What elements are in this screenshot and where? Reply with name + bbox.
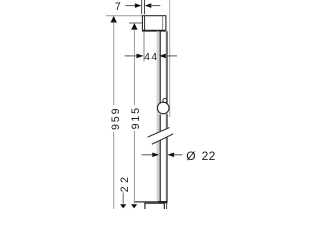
rail left edge mid segment xyxy=(159,115,161,132)
extension line 7 left xyxy=(141,0,143,14)
bracket plate inner line xyxy=(144,16,146,31)
rail right edge lower segment xyxy=(166,137,168,202)
extension line 7 right xyxy=(144,0,146,14)
rail left edge lower segment xyxy=(159,140,161,201)
arrow 959 top xyxy=(111,16,117,23)
bracket bottom edge thick xyxy=(142,30,166,32)
rail right inner shading lower xyxy=(165,137,166,201)
dim line 22 bottom xyxy=(122,193,124,204)
break symbol lower line xyxy=(152,134,173,144)
arrow 22 bottom xyxy=(120,204,126,208)
svg-text:959: 959 xyxy=(110,107,122,130)
svg-text:44: 44 xyxy=(144,52,158,63)
extension line 44 left xyxy=(143,32,145,62)
rail left shading lower xyxy=(157,142,160,202)
extension line top of assembly xyxy=(106,15,143,17)
break symbol upper line xyxy=(148,128,170,138)
extension line top of bar xyxy=(129,22,142,24)
rail left shading upper xyxy=(157,31,160,132)
arrow 915 bottom xyxy=(131,204,137,208)
dim line diameter 22 left segment with arrow xyxy=(142,154,153,156)
svg-text:915: 915 xyxy=(130,106,142,129)
wall bracket top body xyxy=(142,16,166,31)
dim line 959 lower segment xyxy=(113,132,115,209)
dim line 7 left segment with arrow xyxy=(126,5,137,7)
bar bottom end cap thick xyxy=(158,201,167,203)
rail left edge upper segment xyxy=(159,31,161,103)
svg-text:22: 22 xyxy=(202,149,216,163)
dim line 915 lower segment xyxy=(133,131,135,204)
dim line diameter 22 right segment with arrow xyxy=(167,153,174,158)
slider hook xyxy=(163,99,167,103)
wall bracket bottom body xyxy=(145,203,164,211)
slider knob circle xyxy=(157,102,169,114)
svg-text:Ø: Ø xyxy=(186,149,195,163)
rail right edge mid segment xyxy=(166,114,168,129)
dim line 7 right segment with arrow xyxy=(145,3,152,8)
svg-text:7: 7 xyxy=(115,1,121,13)
dim line 915 upper segment xyxy=(133,30,135,106)
rail right inner shading upper xyxy=(165,31,166,129)
bracket inner right line xyxy=(162,16,164,31)
dim line 44 right segment with arrow xyxy=(159,54,166,59)
rail right edge upper segment xyxy=(166,31,168,104)
dim line 44 left segment with arrow xyxy=(125,55,137,57)
bar bottom end line xyxy=(135,201,168,203)
extension line right long xyxy=(169,0,171,117)
dim line 959 upper segment xyxy=(113,22,115,105)
bracket bottom outer right line xyxy=(166,203,168,209)
arrow 915 top xyxy=(131,23,137,30)
svg-text:22: 22 xyxy=(119,174,131,193)
